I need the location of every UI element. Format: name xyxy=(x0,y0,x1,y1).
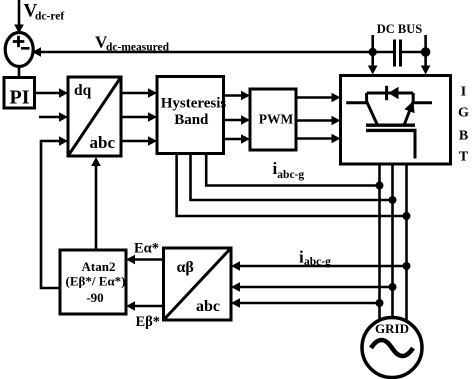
svg-text:dc-ref: dc-ref xyxy=(35,11,64,23)
svg-text:(Eβ*/ Eα*): (Eβ*/ Eα*) xyxy=(66,274,126,289)
svg-text:PI: PI xyxy=(10,87,30,109)
svg-text:B: B xyxy=(459,129,468,144)
svg-text:abc: abc xyxy=(90,133,116,152)
svg-text:αβ: αβ xyxy=(177,259,194,276)
svg-text:Eβ*: Eβ* xyxy=(136,314,161,330)
svg-text:Band: Band xyxy=(174,112,209,128)
svg-text:G: G xyxy=(458,106,469,121)
svg-text:abc-g: abc-g xyxy=(277,169,304,181)
svg-text:dq: dq xyxy=(74,82,92,99)
svg-text:abc: abc xyxy=(196,298,220,315)
svg-text:Atan2: Atan2 xyxy=(82,259,116,274)
svg-text:abc-g: abc-g xyxy=(304,256,331,268)
svg-text:dc-measured: dc-measured xyxy=(106,42,170,54)
svg-text:GRID: GRID xyxy=(375,321,409,336)
svg-text:T: T xyxy=(459,150,469,165)
svg-text:DC BUS: DC BUS xyxy=(377,22,423,36)
svg-text:-90: -90 xyxy=(86,290,103,305)
svg-text:I: I xyxy=(461,85,466,100)
svg-text:Hysteresis: Hysteresis xyxy=(161,96,227,112)
svg-text:PWM: PWM xyxy=(259,112,294,127)
svg-text:Eα*: Eα* xyxy=(134,241,159,257)
